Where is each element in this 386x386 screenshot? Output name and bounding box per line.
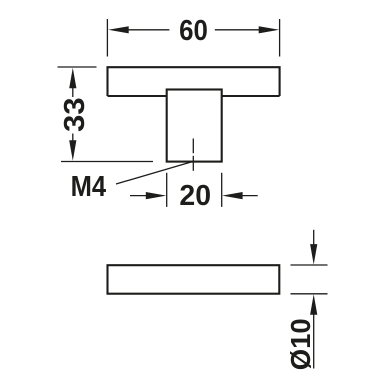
stem centerline upper segment [192,139,194,154]
dimension 20 left extension line [166,173,168,207]
knob top bar bottom edge right segment [222,95,280,97]
dimension 33 up arrowhead [69,68,76,89]
knob stem rectangle (front view) [167,90,222,162]
dimension 20 right extension line [221,173,223,207]
dimension 10 up arrowhead [310,294,317,315]
dimension 20 right arrowhead (points left) [222,192,243,199]
dimension 10 down arrowhead [310,244,317,265]
knob top bar bottom edge left segment [108,95,167,97]
M4 leader line [116,162,193,185]
dimension 33 bottom extension line [61,161,153,163]
svg-text:Ø10: Ø10 [285,318,316,370]
dimension 60 right extension line [279,19,281,57]
dimension 60 right arrowhead [259,26,280,33]
svg-text:33: 33 [59,97,91,132]
knob side view bar outline [108,265,280,294]
stem centerline lower segment [192,156,194,171]
dimension 10 bottom extension line [291,293,328,295]
dimension 60 left extension line [106,19,108,57]
dimension 33 line upper segment [72,86,74,97]
dimension 20 left arrow tail [130,195,148,197]
dimension 10 bottom arrow tail [313,314,315,369]
svg-text:M4: M4 [71,170,106,203]
dimension 10 top extension line [291,264,328,266]
dimension 60 line left segment [127,29,169,31]
dimension 20 left arrowhead (points right) [146,192,167,199]
dimension 10 top arrow tail [313,230,315,246]
dimension 33 down arrowhead [69,140,76,161]
dimension 60 line right segment [215,29,261,31]
knob top bar outline (front view) [108,67,280,96]
dimension 60 left arrowhead [108,26,129,33]
svg-text:20: 20 [179,180,211,212]
dimension 33 line lower segment [72,134,74,143]
dimension 33 top extension line [58,66,97,68]
dimension 20 right arrow tail [241,195,258,197]
svg-text:60: 60 [179,14,208,47]
